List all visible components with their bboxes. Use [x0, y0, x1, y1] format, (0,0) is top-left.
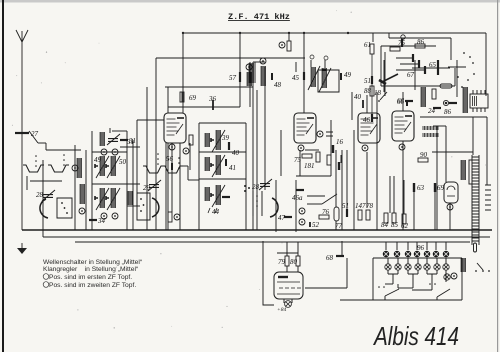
svg-text:80: 80 [290, 258, 298, 266]
svg-text:79: 79 [278, 258, 286, 266]
svg-text:46a: 46a [292, 194, 303, 202]
svg-text:147: 147 [355, 202, 366, 210]
svg-text:69: 69 [437, 184, 445, 192]
svg-text:34: 34 [97, 217, 106, 225]
svg-text:16: 16 [336, 138, 344, 146]
svg-text:86: 86 [444, 108, 452, 116]
svg-text:Pos. sind im ersten ZF Topf.: Pos. sind im ersten ZF Topf. [49, 274, 132, 281]
svg-text:69: 69 [189, 94, 197, 102]
svg-text:75: 75 [294, 156, 302, 164]
svg-text:77: 77 [335, 222, 343, 230]
svg-text:56: 56 [166, 155, 174, 163]
svg-text:75: 75 [398, 39, 406, 47]
svg-text:65: 65 [429, 61, 437, 69]
svg-text:40: 40 [232, 149, 240, 157]
svg-text:Klangregler in Stellung „Mi: Klangregler in Stellung „Mittel“ [43, 266, 138, 273]
svg-text:24: 24 [428, 107, 436, 115]
svg-text:48: 48 [274, 81, 282, 89]
svg-text:47: 47 [278, 214, 286, 222]
svg-text:Albis 414: Albis 414 [372, 321, 459, 351]
svg-text:52: 52 [312, 221, 320, 229]
svg-text:96: 96 [417, 244, 425, 252]
svg-text:85: 85 [391, 221, 399, 229]
svg-text:45: 45 [292, 74, 300, 82]
svg-text:78: 78 [366, 202, 374, 210]
svg-text:18: 18 [374, 89, 382, 97]
svg-text:90: 90 [420, 151, 428, 159]
svg-text:39: 39 [221, 134, 230, 142]
svg-text:61: 61 [364, 41, 371, 49]
svg-text:51: 51 [342, 202, 349, 210]
svg-text:66: 66 [397, 97, 405, 105]
svg-text:57: 57 [229, 74, 237, 82]
svg-text:40: 40 [354, 93, 362, 101]
svg-text:49: 49 [344, 71, 352, 79]
svg-text:88: 88 [364, 87, 372, 95]
svg-text:51: 51 [364, 77, 371, 85]
svg-text:181: 181 [304, 162, 315, 170]
svg-text:63: 63 [417, 184, 425, 192]
svg-text:36: 36 [208, 95, 217, 103]
svg-text:28: 28 [36, 191, 44, 199]
svg-text:76: 76 [322, 208, 330, 216]
svg-text:62: 62 [401, 222, 409, 230]
svg-text:Wellenschalter in Stellung „Mi: Wellenschalter in Stellung „Mittel“ [43, 259, 142, 266]
svg-text:31: 31 [126, 138, 134, 146]
svg-text:84: 84 [381, 221, 389, 229]
svg-text:Pos. sind im zweiten ZF Topf.: Pos. sind im zweiten ZF Topf. [49, 282, 136, 289]
svg-text:+84: +84 [277, 306, 286, 313]
svg-text:86: 86 [417, 38, 425, 46]
svg-text:41: 41 [229, 164, 236, 172]
svg-text:27: 27 [31, 130, 39, 138]
svg-text:49: 49 [94, 156, 102, 164]
svg-text:Z.F. 471 kHz: Z.F. 471 kHz [228, 12, 290, 22]
svg-text:50: 50 [119, 158, 127, 166]
svg-text:67: 67 [407, 71, 415, 79]
svg-text:68: 68 [326, 254, 334, 262]
